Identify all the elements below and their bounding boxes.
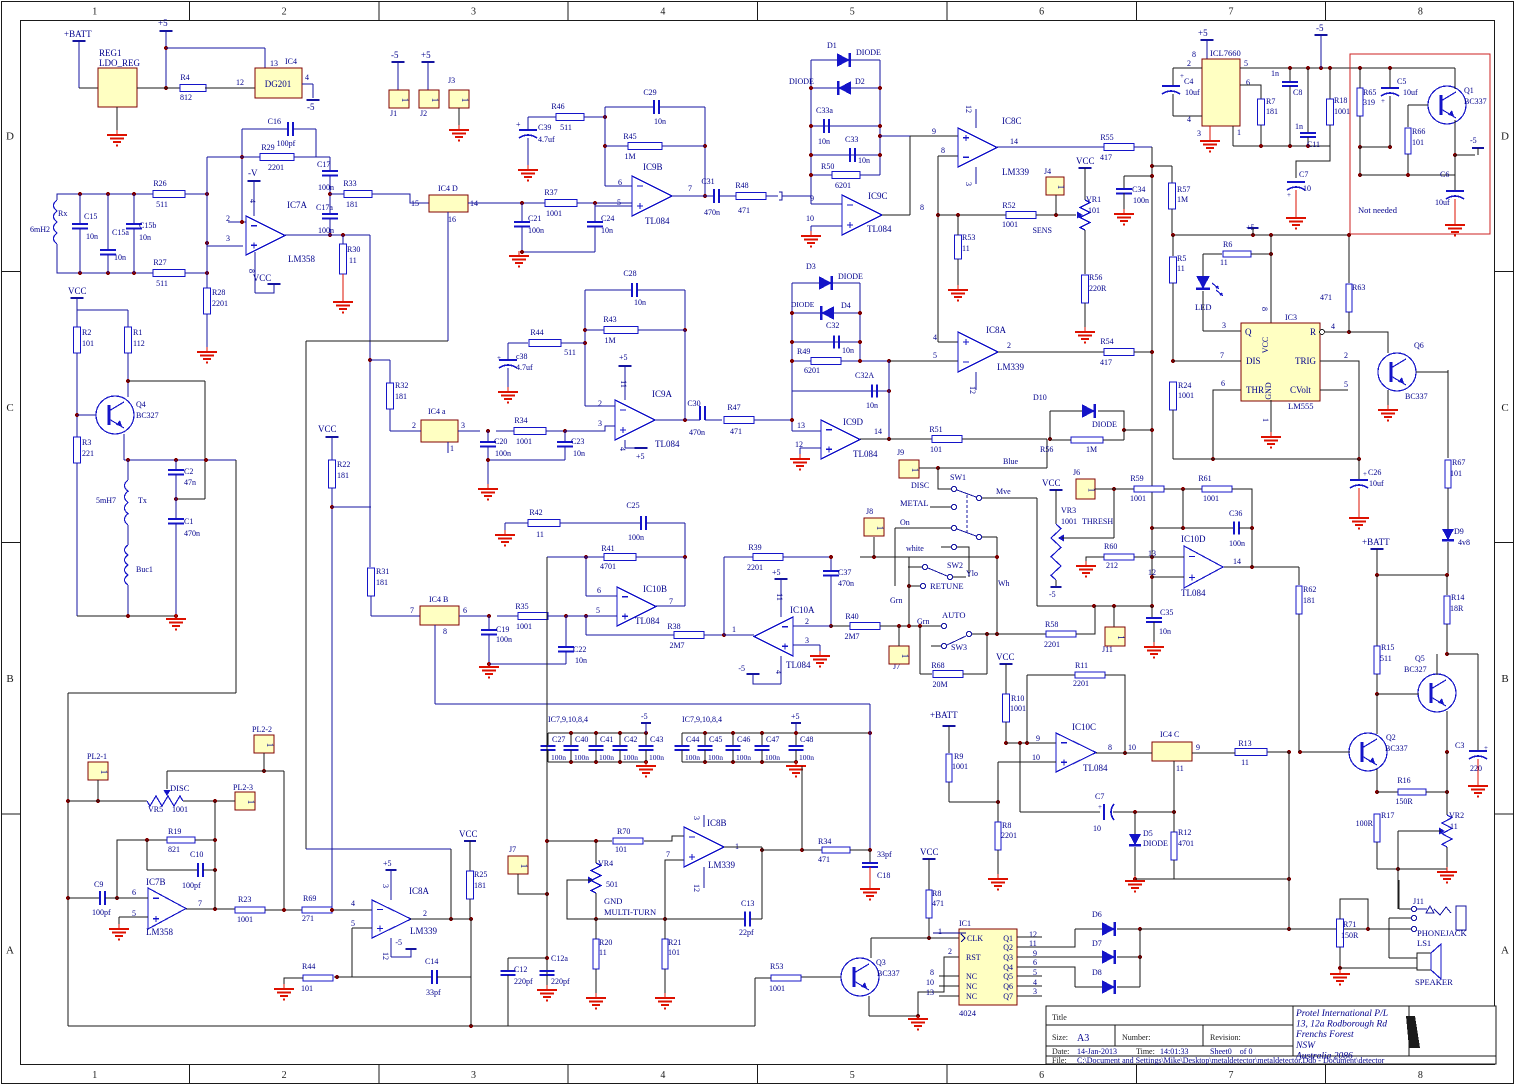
svg-text:8: 8 xyxy=(1418,1070,1423,1081)
svg-text:C35: C35 xyxy=(1160,608,1173,617)
svg-text:R14: R14 xyxy=(1451,593,1464,602)
svg-text:14: 14 xyxy=(1010,137,1018,146)
svg-text:R39: R39 xyxy=(748,543,761,552)
svg-text:+5: +5 xyxy=(1198,28,1208,38)
svg-text:R35: R35 xyxy=(515,602,528,611)
svg-text:13: 13 xyxy=(797,421,805,430)
svg-text:7: 7 xyxy=(198,899,202,908)
svg-text:D10: D10 xyxy=(1033,393,1047,402)
svg-text:100n: 100n xyxy=(496,635,512,644)
svg-text:R18: R18 xyxy=(1334,96,1347,105)
svg-text:TL084: TL084 xyxy=(655,439,680,449)
svg-text:2201: 2201 xyxy=(1001,831,1017,840)
svg-text:2: 2 xyxy=(412,421,416,430)
svg-text:1: 1 xyxy=(519,864,529,869)
svg-text:10uf: 10uf xyxy=(1403,88,1418,97)
svg-text:SW3: SW3 xyxy=(951,643,967,652)
svg-text:47n: 47n xyxy=(184,478,196,487)
svg-text:112: 112 xyxy=(133,339,145,348)
svg-text:-V: -V xyxy=(248,168,258,178)
svg-text:100R: 100R xyxy=(1356,819,1374,828)
svg-text:LS1: LS1 xyxy=(1417,938,1431,948)
svg-text:R62: R62 xyxy=(1303,585,1316,594)
svg-text:5: 5 xyxy=(1244,59,1248,68)
svg-text:4024: 4024 xyxy=(959,1008,977,1018)
svg-text:11: 11 xyxy=(349,256,357,265)
svg-text:R8: R8 xyxy=(932,889,941,898)
svg-text:1: 1 xyxy=(460,98,470,103)
svg-text:1: 1 xyxy=(875,526,885,531)
svg-text:C8: C8 xyxy=(1293,88,1302,97)
svg-text:B: B xyxy=(6,673,13,685)
svg-text:1n: 1n xyxy=(1295,122,1303,131)
svg-text:white: white xyxy=(906,544,924,553)
svg-text:AUTO: AUTO xyxy=(942,610,965,620)
svg-text:C5: C5 xyxy=(1397,77,1406,86)
svg-text:8: 8 xyxy=(443,627,447,636)
svg-text:181: 181 xyxy=(474,881,486,890)
svg-text:C29: C29 xyxy=(643,88,656,97)
svg-text:6: 6 xyxy=(463,606,467,615)
svg-text:9: 9 xyxy=(932,127,936,136)
svg-text:2201: 2201 xyxy=(212,299,228,308)
svg-text:6: 6 xyxy=(597,586,601,595)
svg-text:C22: C22 xyxy=(573,645,586,654)
svg-text:220pf: 220pf xyxy=(514,977,533,986)
svg-text:8: 8 xyxy=(1260,307,1269,311)
svg-text:IC10A: IC10A xyxy=(790,605,815,615)
svg-text:R54: R54 xyxy=(1100,337,1113,346)
svg-text:101: 101 xyxy=(930,445,942,454)
svg-text:IC4 D: IC4 D xyxy=(438,184,458,193)
svg-text:R29: R29 xyxy=(261,143,274,152)
svg-text:220R: 220R xyxy=(1089,284,1107,293)
svg-text:319: 319 xyxy=(1363,98,1375,107)
svg-text:1: 1 xyxy=(246,800,256,805)
svg-text:CVolt: CVolt xyxy=(1290,385,1311,395)
svg-text:3: 3 xyxy=(1033,987,1037,996)
svg-text:DISC: DISC xyxy=(911,481,929,490)
svg-text:IC1: IC1 xyxy=(959,919,971,928)
svg-text:1: 1 xyxy=(450,444,454,453)
svg-text:4: 4 xyxy=(618,447,627,451)
svg-text:4: 4 xyxy=(933,333,937,342)
svg-text:101: 101 xyxy=(301,984,313,993)
svg-text:C13: C13 xyxy=(741,899,754,908)
svg-text:470n: 470n xyxy=(838,579,854,588)
svg-text:Q3: Q3 xyxy=(1003,953,1013,962)
svg-text:R17: R17 xyxy=(1381,811,1394,820)
svg-text:2: 2 xyxy=(1344,351,1348,360)
svg-text:11: 11 xyxy=(775,593,784,601)
svg-text:VCC: VCC xyxy=(459,829,478,839)
svg-text:1: 1 xyxy=(430,98,440,103)
svg-text:4v8: 4v8 xyxy=(1458,538,1470,547)
svg-text:14:01:33: 14:01:33 xyxy=(1160,1047,1188,1056)
svg-text:Q4: Q4 xyxy=(136,400,146,409)
svg-text:PL2-1: PL2-1 xyxy=(87,752,107,761)
svg-text:+: + xyxy=(516,120,521,129)
svg-text:D: D xyxy=(6,131,14,143)
svg-text:D4: D4 xyxy=(841,301,851,310)
svg-text:1001: 1001 xyxy=(1334,107,1350,116)
svg-text:Q4: Q4 xyxy=(1003,963,1013,972)
svg-text:101: 101 xyxy=(1088,206,1100,215)
svg-text:6: 6 xyxy=(1039,7,1044,18)
svg-text:Q7: Q7 xyxy=(1003,992,1013,1001)
svg-text:C48: C48 xyxy=(800,735,813,744)
svg-text:C7: C7 xyxy=(1299,170,1308,179)
svg-text:C6: C6 xyxy=(1440,170,1449,179)
svg-text:3: 3 xyxy=(471,7,476,18)
svg-text:1: 1 xyxy=(92,1070,97,1081)
svg-text:470n: 470n xyxy=(704,208,720,217)
svg-text:7: 7 xyxy=(669,597,673,606)
svg-text:14-Jan-2013: 14-Jan-2013 xyxy=(1077,1047,1117,1056)
svg-text:7: 7 xyxy=(1228,1070,1233,1081)
svg-text:10n: 10n xyxy=(86,232,98,241)
svg-text:TL084: TL084 xyxy=(867,224,892,234)
svg-text:R13: R13 xyxy=(1238,739,1251,748)
svg-text:DIODE: DIODE xyxy=(856,48,881,57)
svg-text:C42: C42 xyxy=(624,735,637,744)
svg-text:821: 821 xyxy=(168,845,180,854)
svg-text:R67: R67 xyxy=(1452,458,1465,467)
svg-text:VR4: VR4 xyxy=(598,859,613,868)
svg-text:Grn: Grn xyxy=(890,596,902,605)
svg-text:BC337: BC337 xyxy=(877,969,900,978)
svg-text:Title: Title xyxy=(1052,1013,1067,1022)
svg-text:R66: R66 xyxy=(1412,127,1425,136)
svg-text:100n: 100n xyxy=(649,753,664,762)
svg-text:3: 3 xyxy=(598,419,602,428)
svg-text:4701: 4701 xyxy=(1178,839,1194,848)
svg-text:R9: R9 xyxy=(954,752,963,761)
svg-text:R58: R58 xyxy=(1045,620,1058,629)
svg-text:C10: C10 xyxy=(190,850,203,859)
svg-text:C28: C28 xyxy=(623,269,636,278)
svg-text:R4: R4 xyxy=(180,73,189,82)
svg-text:2201: 2201 xyxy=(1073,679,1089,688)
svg-text:SENS: SENS xyxy=(1032,226,1052,235)
svg-text:NSW: NSW xyxy=(1295,1041,1316,1051)
svg-text:R28: R28 xyxy=(212,288,225,297)
svg-text:220: 220 xyxy=(1470,764,1482,773)
svg-text:12: 12 xyxy=(964,105,973,113)
svg-text:DIODE: DIODE xyxy=(1092,420,1117,429)
svg-text:VR3: VR3 xyxy=(1061,506,1076,515)
svg-text:-5: -5 xyxy=(738,664,745,673)
svg-text:2: 2 xyxy=(598,399,602,408)
svg-text:471: 471 xyxy=(1320,293,1332,302)
svg-text:A: A xyxy=(6,944,14,956)
svg-text:D6: D6 xyxy=(1092,910,1102,919)
svg-text:9: 9 xyxy=(1036,734,1040,743)
svg-text:100n: 100n xyxy=(799,753,814,762)
svg-text:R33: R33 xyxy=(343,179,356,188)
svg-text:13: 13 xyxy=(270,59,278,68)
svg-text:+: + xyxy=(497,354,501,362)
svg-text:4: 4 xyxy=(1331,322,1335,331)
svg-text:METAL: METAL xyxy=(900,498,929,508)
svg-text:18R: 18R xyxy=(1450,604,1464,613)
svg-text:On: On xyxy=(900,518,910,527)
svg-text:R47: R47 xyxy=(727,403,740,412)
svg-text:100n: 100n xyxy=(599,753,614,762)
svg-text:C17: C17 xyxy=(317,160,330,169)
svg-text:4: 4 xyxy=(660,1070,665,1081)
svg-text:100pf: 100pf xyxy=(277,139,296,148)
svg-text:7: 7 xyxy=(410,606,414,615)
svg-text:13, 12a Rodborough Rd: 13, 12a Rodborough Rd xyxy=(1296,1020,1387,1030)
svg-text:Q1: Q1 xyxy=(1464,86,1474,95)
svg-text:TL084: TL084 xyxy=(645,216,670,226)
svg-text:Number:: Number: xyxy=(1122,1033,1150,1042)
svg-text:33pf: 33pf xyxy=(426,988,441,997)
svg-text:12: 12 xyxy=(1029,930,1037,939)
svg-text:10: 10 xyxy=(1032,753,1040,762)
svg-text:10n: 10n xyxy=(858,156,870,165)
svg-text:MULTI-TURN: MULTI-TURN xyxy=(604,907,656,917)
svg-text:9: 9 xyxy=(1196,743,1200,752)
svg-text:101: 101 xyxy=(1450,469,1462,478)
svg-text:6201: 6201 xyxy=(804,366,820,375)
svg-text:1: 1 xyxy=(1056,185,1066,190)
svg-text:1001: 1001 xyxy=(1178,391,1194,400)
svg-text:R57: R57 xyxy=(1177,185,1190,194)
svg-text:100n: 100n xyxy=(685,753,700,762)
svg-text:R32: R32 xyxy=(395,381,408,390)
svg-text:R45: R45 xyxy=(623,132,636,141)
svg-text:10: 10 xyxy=(1093,824,1101,833)
svg-text:BC337: BC337 xyxy=(1385,744,1408,753)
svg-text:IC9B: IC9B xyxy=(643,162,663,172)
svg-text:C12: C12 xyxy=(514,965,527,974)
svg-text:10n: 10n xyxy=(575,656,587,665)
svg-text:14: 14 xyxy=(874,427,882,436)
svg-text:Size:: Size: xyxy=(1052,1033,1068,1042)
svg-text:2201: 2201 xyxy=(1044,640,1060,649)
svg-text:TL084: TL084 xyxy=(1181,588,1206,598)
svg-text:-5: -5 xyxy=(1316,23,1324,33)
svg-text:IC7B: IC7B xyxy=(146,877,166,887)
svg-text:101: 101 xyxy=(1412,138,1424,147)
svg-text:2: 2 xyxy=(805,617,809,626)
svg-text:150R: 150R xyxy=(1395,797,1413,806)
svg-text:C23: C23 xyxy=(571,437,584,446)
svg-text:SW2: SW2 xyxy=(947,561,963,570)
svg-text:C46: C46 xyxy=(737,735,750,744)
svg-text:R38: R38 xyxy=(667,622,680,631)
svg-text:IC9C: IC9C xyxy=(868,191,888,201)
svg-text:11: 11 xyxy=(1177,264,1185,273)
svg-text:R56: R56 xyxy=(1089,273,1102,282)
svg-text:C41: C41 xyxy=(600,735,613,744)
svg-text:C15b: C15b xyxy=(139,221,156,230)
svg-text:D: D xyxy=(1501,131,1509,143)
svg-text:8: 8 xyxy=(1108,743,1112,752)
svg-text:R2: R2 xyxy=(82,328,91,337)
svg-text:Blue: Blue xyxy=(1003,457,1019,466)
svg-text:2: 2 xyxy=(282,7,287,18)
svg-text:C11: C11 xyxy=(1307,140,1320,149)
svg-text:TL084: TL084 xyxy=(786,660,811,670)
svg-text:6: 6 xyxy=(1246,78,1250,87)
svg-text:1: 1 xyxy=(732,625,736,634)
svg-text:10n: 10n xyxy=(139,233,151,242)
svg-text:10n: 10n xyxy=(1159,627,1171,636)
svg-text:10n: 10n xyxy=(601,226,613,235)
svg-text:1: 1 xyxy=(1261,418,1270,422)
svg-text:12: 12 xyxy=(692,884,701,892)
svg-text:7: 7 xyxy=(666,850,670,859)
svg-text:DISC: DISC xyxy=(170,783,190,793)
svg-text:100n: 100n xyxy=(318,183,334,192)
svg-text:IC8A: IC8A xyxy=(986,325,1007,335)
svg-text:J3: J3 xyxy=(448,76,455,85)
svg-text:-5: -5 xyxy=(641,712,648,721)
svg-text:BC327: BC327 xyxy=(1404,665,1427,674)
svg-text:11: 11 xyxy=(1241,758,1249,767)
svg-text:R12: R12 xyxy=(1178,828,1191,837)
svg-text:Mve: Mve xyxy=(996,487,1011,496)
svg-text:1: 1 xyxy=(92,7,97,18)
svg-text:J1: J1 xyxy=(390,109,397,118)
svg-text:R50: R50 xyxy=(821,162,834,171)
svg-text:+5: +5 xyxy=(791,712,800,721)
svg-text:VCC: VCC xyxy=(318,424,337,434)
svg-text:417: 417 xyxy=(1100,358,1112,367)
svg-text:R44: R44 xyxy=(530,328,543,337)
svg-text:3: 3 xyxy=(381,884,390,888)
svg-text:R53: R53 xyxy=(770,962,783,971)
svg-text:IC7A: IC7A xyxy=(287,200,308,210)
svg-text:6201: 6201 xyxy=(835,181,851,190)
svg-text:-5: -5 xyxy=(391,50,399,60)
svg-text:DIODE: DIODE xyxy=(838,272,863,281)
svg-text:+: + xyxy=(1287,191,1291,199)
svg-text:15: 15 xyxy=(411,199,419,208)
svg-text:VR5: VR5 xyxy=(148,805,163,814)
svg-text:471: 471 xyxy=(818,855,830,864)
svg-text:DG201: DG201 xyxy=(265,79,292,89)
svg-text:C27: C27 xyxy=(552,735,565,744)
svg-text:+5: +5 xyxy=(158,18,168,28)
svg-text:Q3: Q3 xyxy=(876,958,886,967)
svg-text:Q6: Q6 xyxy=(1414,341,1424,350)
svg-text:3: 3 xyxy=(964,182,973,186)
svg-text:C: C xyxy=(6,402,13,414)
svg-text:1M: 1M xyxy=(1086,445,1097,454)
svg-text:10n: 10n xyxy=(842,346,854,355)
svg-text:IC9D: IC9D xyxy=(843,417,864,427)
svg-text:A3: A3 xyxy=(1077,1033,1089,1044)
svg-text:D9: D9 xyxy=(1454,527,1464,536)
svg-text:100pf: 100pf xyxy=(92,908,111,917)
svg-text:IC8B: IC8B xyxy=(707,818,727,828)
svg-text:R42: R42 xyxy=(529,508,542,517)
svg-text:C3: C3 xyxy=(1455,741,1464,750)
svg-text:VCC: VCC xyxy=(920,847,939,857)
svg-text:2: 2 xyxy=(1187,59,1191,68)
svg-text:181: 181 xyxy=(376,578,388,587)
svg-text:10n: 10n xyxy=(114,253,126,262)
svg-text:C16: C16 xyxy=(268,117,281,126)
svg-text:8: 8 xyxy=(1418,7,1423,18)
svg-text:DIODE: DIODE xyxy=(789,77,814,86)
svg-text:2M7: 2M7 xyxy=(669,641,684,650)
svg-text:13: 13 xyxy=(926,988,934,997)
svg-text:R61: R61 xyxy=(1198,474,1211,483)
svg-text:100n: 100n xyxy=(551,753,566,762)
svg-text:181: 181 xyxy=(1303,596,1315,605)
svg-text:181: 181 xyxy=(1266,107,1278,116)
svg-text:IC4 C: IC4 C xyxy=(1160,730,1179,739)
svg-text:5: 5 xyxy=(850,7,855,18)
svg-text:470n: 470n xyxy=(689,428,705,437)
svg-text:10n: 10n xyxy=(818,137,830,146)
svg-text:470n: 470n xyxy=(184,529,200,538)
svg-text:C32A: C32A xyxy=(855,371,874,380)
svg-text:511: 511 xyxy=(564,348,576,357)
svg-text:R46: R46 xyxy=(551,102,564,111)
svg-text:Australia 2086: Australia 2086 xyxy=(1295,1051,1353,1061)
svg-text:c38: c38 xyxy=(516,352,528,361)
svg-text:THRESH: THRESH xyxy=(1082,517,1113,526)
svg-text:-5: -5 xyxy=(307,102,315,112)
svg-text:-5: -5 xyxy=(1470,136,1477,145)
svg-text:511: 511 xyxy=(560,123,572,132)
svg-text:NC: NC xyxy=(966,992,977,1001)
svg-text:A: A xyxy=(1501,944,1509,956)
svg-text:IC9A: IC9A xyxy=(652,389,673,399)
svg-text:10uf: 10uf xyxy=(1185,88,1200,97)
svg-text:DIS: DIS xyxy=(1246,356,1261,366)
svg-text:GND: GND xyxy=(1264,382,1273,400)
svg-text:C: C xyxy=(1501,402,1508,414)
svg-text:14: 14 xyxy=(1233,557,1241,566)
svg-text:4: 4 xyxy=(1187,115,1191,124)
svg-text:4: 4 xyxy=(248,199,257,203)
svg-text:100n: 100n xyxy=(574,753,589,762)
svg-text:R: R xyxy=(1310,327,1316,337)
svg-text:1001: 1001 xyxy=(516,437,532,446)
svg-text:GND: GND xyxy=(604,896,622,906)
svg-text:Q5: Q5 xyxy=(1003,972,1013,981)
svg-text:8: 8 xyxy=(920,203,924,212)
svg-text:1001: 1001 xyxy=(1010,704,1026,713)
svg-text:C47: C47 xyxy=(766,735,779,744)
svg-text:Protel International P/L: Protel International P/L xyxy=(1295,1009,1388,1019)
svg-text:511: 511 xyxy=(156,200,168,209)
svg-text:Wh: Wh xyxy=(998,579,1010,588)
svg-text:R55: R55 xyxy=(1100,133,1113,142)
svg-text:NC: NC xyxy=(966,982,977,991)
svg-text:D8: D8 xyxy=(1092,968,1102,977)
svg-text:C14: C14 xyxy=(425,957,438,966)
svg-text:R15: R15 xyxy=(1381,643,1394,652)
svg-text:100n: 100n xyxy=(528,226,544,235)
svg-text:DIODE: DIODE xyxy=(791,300,815,309)
svg-text:D5: D5 xyxy=(1143,829,1153,838)
svg-text:1001: 1001 xyxy=(952,762,968,771)
svg-text:+BATT: +BATT xyxy=(930,710,958,720)
svg-text:1: 1 xyxy=(400,98,410,103)
svg-text:+5: +5 xyxy=(619,353,628,362)
svg-text:R34: R34 xyxy=(514,416,527,425)
svg-text:IC7,9,10,8,4: IC7,9,10,8,4 xyxy=(682,715,722,724)
svg-text:R70: R70 xyxy=(617,827,630,836)
